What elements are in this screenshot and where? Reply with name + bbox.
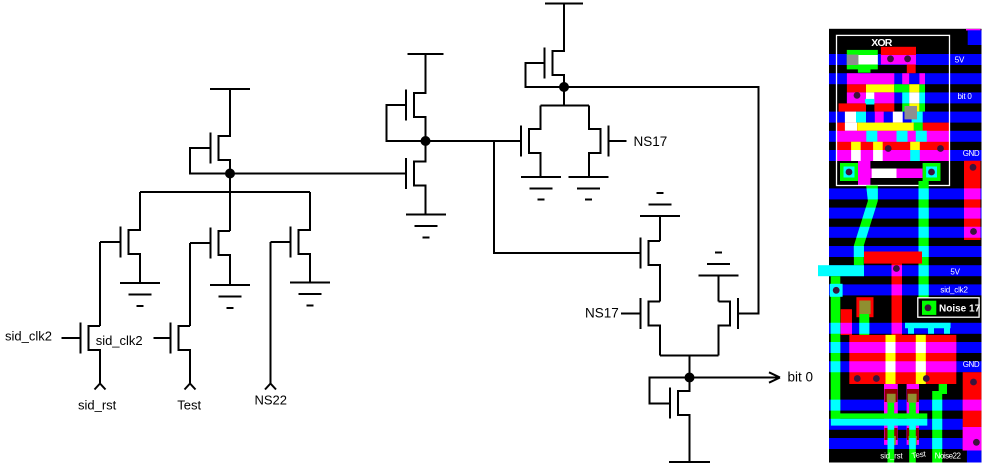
inverted ground IG1 bbox=[640, 193, 680, 241]
metal stripe k1 bbox=[829, 73, 982, 84]
vdd rail VDD1 bbox=[210, 88, 250, 90]
svg-text:sid_rst: sid_rst bbox=[880, 452, 903, 461]
wire node A to N4 gate bbox=[230, 173, 406, 175]
layout cyan elbow horizontal bbox=[818, 265, 864, 276]
wire node C down to pair bus bbox=[563, 87, 565, 106]
layout maze row k2 stripe: magenta left bbox=[847, 92, 866, 103]
layout green elbow horizontal bottom bbox=[836, 413, 928, 418]
layout dark red squares on columns bbox=[885, 389, 919, 440]
metal stripe k19 bbox=[829, 419, 982, 430]
metal stripe k14 bbox=[829, 323, 982, 334]
layout magenta seg row r9 bbox=[870, 169, 922, 179]
terminal Test bbox=[185, 384, 196, 390]
metal stripe k7 bbox=[829, 188, 982, 199]
layout cyan overlay on left mid green bbox=[854, 246, 864, 257]
layout maze row k3: cyan vert bbox=[856, 112, 866, 123]
wire node B to N5 gate bbox=[426, 140, 522, 142]
layout red L left bbox=[841, 309, 852, 335]
layout cyan comb on k14 bbox=[905, 323, 951, 334]
layout maze cyan verts k4 bbox=[866, 131, 927, 142]
layout maze row y84-92: green band bbox=[894, 84, 909, 92]
svg-text:NS17: NS17 bbox=[634, 134, 668, 149]
layout via squares on columns bottom bbox=[888, 436, 917, 445]
wire node D to arrow bbox=[690, 377, 781, 379]
layout maze row k2: cyan vert b bbox=[919, 92, 925, 103]
terminal sid_rst bbox=[95, 384, 106, 390]
layout red vert mid bbox=[892, 264, 903, 335]
layout via on far left green bbox=[830, 284, 843, 297]
layout green trace sid_rst bottom bbox=[888, 403, 895, 463]
layout blue patch top right bbox=[968, 30, 982, 45]
metal stripe k5 GND bbox=[829, 150, 982, 161]
layout via squares on columns top bbox=[887, 394, 917, 403]
ground G5 bbox=[521, 177, 561, 200]
node A bbox=[225, 169, 235, 179]
wire bus to node D bbox=[689, 356, 691, 378]
transistor N6 (mirrored) bbox=[589, 106, 627, 178]
layout maze yellow band r4 bbox=[857, 123, 914, 131]
svg-text:sid_clk2: sid_clk2 bbox=[5, 329, 52, 344]
vdd rail VDD2 bbox=[408, 53, 444, 55]
layout maze white verts k5 bbox=[851, 150, 883, 161]
transistor N1 bbox=[100, 192, 140, 283]
layout white seg in green pad bbox=[858, 55, 878, 65]
metal stripe k18 bbox=[829, 400, 982, 411]
layout magenta bar top (red over 5V stripe) bbox=[881, 55, 916, 65]
layout maze dark dot TL bbox=[854, 92, 861, 99]
layout red arm right bbox=[907, 65, 916, 74]
transistor N9 (mirrored) bbox=[719, 298, 739, 356]
layout white seg row r9 bbox=[872, 169, 897, 179]
layout dark dots in blob bbox=[854, 375, 930, 382]
svg-text:5V: 5V bbox=[955, 56, 965, 65]
layout cyan overlay green vert k14 bbox=[859, 323, 869, 334]
layout red column bottom right bbox=[963, 372, 982, 450]
layout magenta overlay red L k14 bbox=[841, 323, 852, 334]
svg-text:5V: 5V bbox=[950, 268, 960, 277]
layout dark dots bottom right column bbox=[970, 379, 980, 446]
layout maze cyan vert k5 bbox=[910, 150, 920, 161]
layout contact dot top 1 bbox=[887, 55, 894, 62]
transistor Q1 (sid_clk2 pass, left) bbox=[62, 323, 101, 384]
ground G7 (clipped at bottom) bbox=[669, 461, 710, 463]
layout white verts in blob on magenta bbox=[886, 342, 926, 372]
layout maze row k2: magenta mid bbox=[874, 92, 894, 103]
svg-text:XOR: XOR bbox=[871, 37, 893, 49]
layout maze magenta band k5 bbox=[837, 150, 950, 161]
node B bbox=[421, 136, 431, 146]
layout maze row y103-111: red left arm bbox=[839, 103, 866, 111]
wire N2 gate down to Q2 drain bbox=[189, 243, 191, 326]
layout green trace right below box bbox=[919, 181, 929, 300]
metal stripe k16 GND bbox=[829, 361, 982, 372]
metal stripe k2 bbox=[847, 92, 982, 103]
transistor N3 bbox=[271, 192, 311, 283]
layout yellow verts in blob bbox=[886, 335, 926, 384]
layout maze row k3: cyan vert c bbox=[912, 112, 923, 123]
layout dark dots on right column bbox=[970, 164, 977, 235]
svg-text:sid_clk2: sid_clk2 bbox=[940, 286, 968, 295]
metal stripe k4 bbox=[829, 131, 982, 142]
svg-text:NS17: NS17 bbox=[585, 305, 619, 320]
layout maze row y103-111: yellow vert bbox=[909, 103, 919, 111]
transistor N5 bbox=[521, 106, 541, 178]
wire drain bus stage1 bbox=[140, 191, 310, 193]
vdd rail VDD3 bbox=[545, 3, 583, 5]
layout magenta bands in blob bbox=[849, 342, 956, 372]
metal stripe k15 bbox=[829, 342, 982, 353]
layout noise17 box bbox=[918, 298, 981, 317]
layout cyan overlays on green trace right bbox=[919, 188, 929, 295]
metal stripe k12 sid_clk2 bbox=[829, 284, 982, 295]
svg-text:Noise22: Noise22 bbox=[935, 452, 962, 461]
transistor N7 bbox=[641, 238, 661, 302]
svg-text:bit 0: bit 0 bbox=[958, 92, 973, 101]
layout cyan overlays on bottom green traces bbox=[888, 400, 943, 449]
wire node B branch to N7 gate bbox=[494, 141, 641, 253]
layout cyan elbow horizontal bottom bbox=[831, 419, 927, 426]
transistor N2 bbox=[190, 228, 230, 286]
wire node C right and down to N9 gate bbox=[564, 87, 759, 314]
ground G3 bbox=[290, 283, 330, 306]
wire output pair bus bbox=[660, 355, 719, 357]
metal stripe k20 bbox=[829, 438, 982, 449]
layout XOR box white border bbox=[837, 35, 950, 185]
layout green trace Noise22 bottom bbox=[932, 384, 947, 463]
layout magenta overlays bottom right column bbox=[963, 400, 982, 451]
ground G2 bbox=[210, 285, 250, 308]
wire node D to M4 gate bbox=[650, 378, 690, 404]
layout maze row k2: white vert bbox=[866, 92, 874, 103]
layout via square on red block bbox=[859, 301, 870, 315]
layout maze magenta band k4 bbox=[837, 131, 950, 142]
layout green tab below pad bbox=[858, 65, 871, 73]
layout cyan overlays far left green bbox=[831, 284, 841, 410]
layout maze row y84-92: yellow band bbox=[866, 84, 894, 92]
layout contact square right bbox=[923, 163, 941, 181]
svg-text:bit 0: bit 0 bbox=[788, 370, 814, 385]
transistor N8 bbox=[621, 298, 660, 356]
terminal NS22 bbox=[265, 384, 276, 390]
layout maze row k3: white vert b bbox=[893, 112, 903, 123]
layout maze row k2: white vert b bbox=[909, 92, 919, 103]
layout via square top left bbox=[847, 55, 859, 65]
layout magenta columns below blob bbox=[884, 384, 919, 445]
metal stripe k11 5V bbox=[829, 265, 982, 276]
ground G1 bbox=[120, 283, 160, 306]
layout red bar top bbox=[881, 47, 916, 55]
layout red blob mid bbox=[864, 252, 922, 264]
transistor M4 (output feedback) bbox=[670, 378, 690, 463]
transistor Q2 (sid_clk2 pass, right) bbox=[154, 323, 191, 384]
layout maze dark dot r6 b bbox=[937, 145, 944, 152]
node D bbox=[685, 373, 695, 383]
layout green vert from via bbox=[859, 314, 869, 335]
svg-text:GND: GND bbox=[963, 360, 980, 369]
layout maze row y103-111: green vert bbox=[902, 103, 909, 111]
layout magenta overlays on right column bbox=[964, 188, 981, 237]
wire xor pair bus bbox=[541, 105, 590, 107]
layout maze row y84-92: red left bbox=[847, 84, 866, 92]
layout maze row y84-92: yellow band b bbox=[909, 84, 919, 92]
layout blue patch bottom right corner bbox=[967, 451, 982, 463]
svg-text:GND: GND bbox=[963, 149, 980, 158]
transistor M2 (depletion load, stage 2) bbox=[387, 54, 426, 141]
layout maze row y103-111: red mid bbox=[874, 103, 894, 111]
layout maze cyan patch below white bbox=[865, 99, 874, 105]
layout contact square left bbox=[840, 163, 858, 181]
layout green trace Test bottom bbox=[909, 403, 916, 463]
transistor M3 (depletion load, stage 3) bbox=[526, 4, 565, 88]
layout contact dot top 2 bbox=[904, 55, 911, 62]
layout maze red mass y122-161 bbox=[837, 123, 950, 161]
layout maze row y103-111: green vert b bbox=[919, 103, 925, 111]
metal stripe k0 5V bbox=[829, 54, 982, 65]
layout green vert far left bbox=[831, 276, 841, 419]
ground G4 bbox=[406, 215, 446, 238]
svg-text:Noise 17: Noise 17 bbox=[939, 304, 981, 315]
svg-text:sid_clk2: sid_clk2 bbox=[96, 333, 143, 348]
layout maze white elbow r4 bbox=[845, 123, 857, 131]
layout maze row y84-92: green band b bbox=[919, 84, 925, 92]
metal stripe k9 bbox=[829, 227, 982, 238]
svg-text:NS22: NS22 bbox=[255, 392, 288, 407]
layout magenta vert below r7 bbox=[858, 161, 870, 186]
layout magenta sliver top right bbox=[966, 29, 981, 31]
wire node A down to N2 bbox=[229, 174, 231, 232]
layout magenta overlays red vert mid bbox=[892, 265, 903, 334]
layout maze green seg r4 bbox=[914, 123, 923, 131]
layout maze row k3: magenta vert bbox=[875, 112, 884, 123]
svg-text:Test: Test bbox=[177, 398, 201, 413]
layout maze yellow verts r6 bbox=[851, 142, 920, 150]
svg-text:sid_rst: sid_rst bbox=[78, 398, 117, 413]
layout red via block left bbox=[856, 297, 873, 317]
layout green trace below box with diagonal bbox=[845, 186, 885, 266]
layout big red blob bottom bbox=[849, 335, 956, 384]
layout red column right bbox=[964, 161, 981, 240]
ground G6 bbox=[569, 177, 609, 200]
arrowhead bit 0 bbox=[769, 372, 780, 382]
transistor M1 (depletion load, stage 1) bbox=[190, 89, 230, 174]
layout maze row k3: white vert bbox=[845, 112, 856, 123]
wire N1 gate down to Q1 drain bbox=[99, 242, 101, 326]
wire N3 gate to NS22 terminal bbox=[270, 242, 272, 384]
layout green pad top bbox=[847, 50, 878, 70]
transistor N4 (driver, stage 2) bbox=[406, 141, 426, 215]
metal stripe k8 bbox=[829, 208, 982, 219]
layout via square mid bbox=[905, 106, 918, 119]
layout maze row k1 stripe: magenta over red bbox=[847, 73, 925, 84]
inverted ground IG2 bbox=[699, 253, 739, 302]
layout maze dark dot r6 a bbox=[885, 145, 892, 152]
node C bbox=[559, 82, 569, 92]
metal stripe k10 bbox=[829, 246, 982, 257]
layout dark dot on red vert bbox=[893, 265, 900, 272]
layout black background bbox=[829, 29, 982, 463]
metal stripe k3 bbox=[829, 112, 982, 123]
layout maze row k2: cyan vert bbox=[902, 92, 909, 103]
